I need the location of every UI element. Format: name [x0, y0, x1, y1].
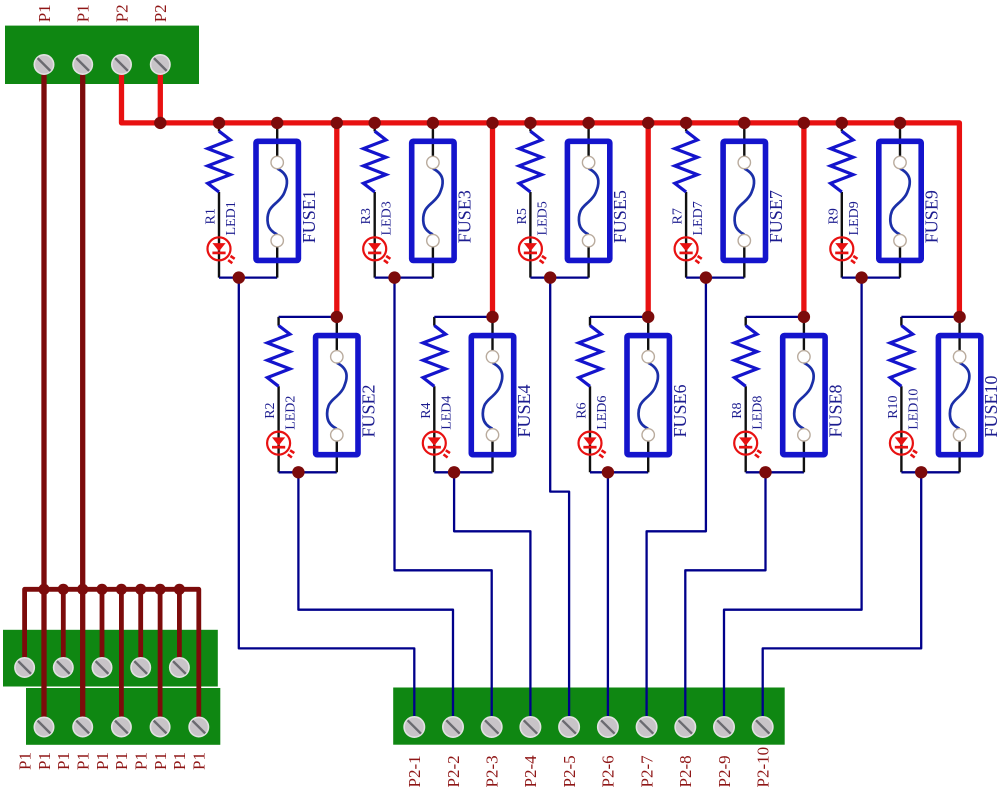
svg-text:P1: P1 [93, 752, 112, 770]
svg-text:FUSE7: FUSE7 [766, 190, 786, 243]
svg-text:R7: R7 [671, 208, 686, 224]
svg-text:P2-5: P2-5 [560, 755, 579, 787]
svg-text:P1: P1 [132, 752, 151, 770]
svg-text:LED6: LED6 [595, 396, 610, 430]
svg-text:FUSE2: FUSE2 [358, 384, 378, 437]
svg-text:P1: P1 [35, 752, 54, 770]
svg-text:LED1: LED1 [224, 201, 239, 235]
svg-text:FUSE5: FUSE5 [610, 190, 630, 243]
svg-text:FUSE6: FUSE6 [670, 384, 690, 437]
svg-text:P2-10: P2-10 [754, 747, 773, 788]
svg-text:LED8: LED8 [751, 396, 766, 430]
svg-text:P1: P1 [112, 752, 131, 770]
svg-text:P2-4: P2-4 [521, 755, 540, 788]
svg-text:P1: P1 [74, 752, 93, 770]
svg-text:R4: R4 [419, 402, 434, 418]
svg-text:R6: R6 [575, 402, 590, 418]
svg-text:P2-3: P2-3 [483, 755, 502, 787]
svg-text:LED4: LED4 [439, 396, 454, 430]
svg-text:P1: P1 [190, 752, 209, 770]
svg-text:R8: R8 [730, 402, 745, 418]
svg-text:P1: P1 [54, 752, 73, 770]
svg-text:P1: P1 [151, 752, 170, 770]
svg-text:R10: R10 [886, 395, 901, 418]
svg-text:LED5: LED5 [535, 201, 550, 235]
svg-text:P1: P1 [74, 4, 93, 22]
svg-text:R2: R2 [263, 402, 278, 418]
svg-text:P2-7: P2-7 [637, 755, 656, 788]
svg-text:FUSE1: FUSE1 [299, 190, 319, 243]
svg-text:LED10: LED10 [906, 389, 921, 430]
svg-text:FUSE4: FUSE4 [514, 384, 534, 437]
svg-text:P2-2: P2-2 [444, 755, 463, 787]
svg-text:P2-1: P2-1 [405, 755, 424, 787]
svg-text:FUSE3: FUSE3 [455, 190, 475, 243]
svg-text:P2: P2 [151, 4, 170, 22]
svg-text:P2-9: P2-9 [715, 755, 734, 787]
svg-text:LED7: LED7 [691, 201, 706, 235]
svg-text:R3: R3 [359, 208, 374, 224]
svg-text:R5: R5 [515, 208, 530, 224]
svg-text:LED3: LED3 [380, 201, 395, 235]
svg-text:P1: P1 [15, 752, 34, 770]
svg-text:FUSE9: FUSE9 [922, 190, 942, 243]
svg-text:P1: P1 [170, 752, 189, 770]
svg-text:R1: R1 [204, 208, 219, 224]
svg-text:FUSE8: FUSE8 [826, 384, 846, 437]
svg-text:P2: P2 [112, 4, 131, 22]
svg-text:P1: P1 [35, 4, 54, 22]
svg-text:FUSE10: FUSE10 [981, 375, 1000, 437]
svg-text:R9: R9 [826, 208, 841, 224]
svg-text:P2-8: P2-8 [676, 755, 695, 787]
svg-text:P2-6: P2-6 [599, 755, 618, 787]
svg-text:LED2: LED2 [284, 396, 299, 430]
svg-text:LED9: LED9 [847, 201, 862, 235]
